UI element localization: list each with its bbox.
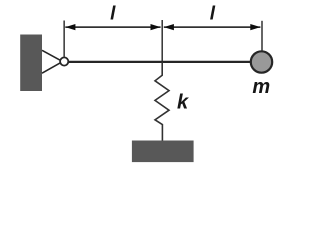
- arrowhead dim2 right: [250, 24, 260, 30]
- dimension line 2 (right l): [164, 26, 261, 28]
- extension line left: [63, 21, 65, 57]
- pin support triangle: [42, 50, 61, 73]
- mass m circle: [251, 51, 272, 72]
- wall (fixed support, left): [20, 35, 42, 92]
- extension line right: [261, 21, 263, 52]
- svg-text:k: k: [177, 91, 189, 113]
- svg-text:l: l: [210, 4, 216, 25]
- extension line center: [161, 20, 163, 61]
- svg-text:l: l: [110, 4, 116, 25]
- svg-text:m: m: [252, 76, 270, 98]
- dimension line 1 (left l): [65, 26, 160, 28]
- pin joint circle: [60, 57, 68, 65]
- arrowhead dim2 left: [164, 24, 174, 30]
- beam (rigid link): [68, 61, 253, 63]
- arrowhead dim1 left: [65, 24, 75, 30]
- spring k: [155, 62, 169, 141]
- arrowhead dim1 right: [151, 24, 161, 30]
- ground block (bottom anchor): [132, 141, 194, 163]
